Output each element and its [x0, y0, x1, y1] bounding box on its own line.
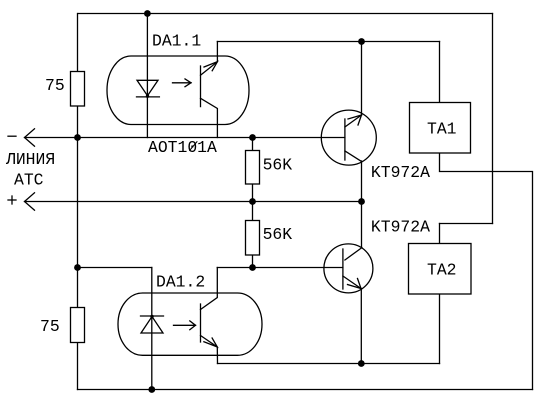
node collector bus junction: [358, 38, 365, 45]
transformer TA1 box: [410, 103, 471, 154]
LED DA1.1 apex dot: [146, 95, 149, 98]
wire plus line y202: [25, 201, 362, 203]
label AOT101A zero slash: [189, 141, 197, 151]
wire Q2 emitter vertical: [360, 289, 362, 364]
wire right outer vertical: [492, 14, 494, 224]
node top LED junction: [144, 10, 151, 17]
svg-text:TA2: TA2: [427, 261, 457, 280]
svg-text:AOT101A: AOT101A: [148, 138, 217, 157]
svg-text:KT972A: KT972A: [371, 217, 430, 236]
wire DA1.2 collector to Q2 base: [217, 267, 343, 269]
phototransistor DA1.2: [201, 268, 218, 364]
svg-text:ЛИНИЯ: ЛИНИЯ: [5, 150, 55, 169]
node emitter bus junction: [358, 360, 365, 367]
optocoupler DA1.2 body: [118, 293, 262, 355]
wire 56K chain vertical: [252, 138, 254, 268]
wire DA1.2 LED vertical: [151, 268, 153, 390]
resistor R3 56K: [246, 221, 260, 256]
transistor Q2 KT972A: [324, 244, 373, 293]
node minus rail junction: [74, 134, 81, 141]
wire DA1.2 anode branch: [78, 267, 152, 269]
label plus sign: [8, 196, 16, 204]
node DA1.2 anode rail junction: [74, 264, 81, 271]
arrow DA1.1 light: [173, 79, 192, 87]
node bottom LED junction: [148, 386, 155, 393]
svg-text:75: 75: [45, 76, 65, 95]
wire Q1 emitter to Q2 collector: [361, 161, 363, 248]
svg-text:TA1: TA1: [427, 120, 457, 139]
optocoupler DA1.1 body: [107, 56, 249, 125]
svg-text:DA1.1: DA1.1: [152, 32, 201, 51]
wire bottom rail: [78, 389, 533, 391]
arrow DA1.2 light: [174, 321, 196, 330]
arrow minus line head: [25, 129, 35, 146]
wire TA1 top lead: [439, 42, 441, 103]
svg-text:KT972A: KT972A: [371, 163, 430, 182]
wire collector bus y42: [217, 41, 439, 43]
node plus emitter junction: [358, 198, 365, 205]
wire left rail: [77, 14, 79, 390]
wire TA2 bottom lead: [439, 294, 441, 364]
transistor Q1 KT972A: [321, 110, 376, 165]
transformer TA2 box: [409, 244, 472, 295]
wire emitter bus y364: [218, 363, 440, 365]
LED DA1.2 triangle: [141, 316, 164, 333]
svg-text:DA1.2: DA1.2: [156, 273, 205, 292]
label minus sign: [8, 135, 16, 137]
wire top rail: [78, 13, 493, 15]
wire TA2 feed horizontal: [440, 223, 493, 225]
wire minus line y137: [25, 137, 345, 139]
wire DA1.1 LED vertical: [146, 14, 148, 138]
wire Q1 collector vertical: [361, 42, 363, 116]
arrow plus line head: [25, 193, 35, 210]
resistor R1 75: [71, 72, 85, 107]
LED DA1.1 triangle: [137, 80, 160, 97]
node Q2 base junction: [249, 264, 256, 271]
svg-text:56K: 56K: [263, 155, 293, 174]
svg-text:АТС: АТС: [14, 170, 44, 189]
resistor R2 56K: [246, 151, 260, 185]
svg-text:56K: 56K: [263, 225, 293, 244]
wire TA1 bottom lead: [440, 153, 533, 390]
LED DA1.2 apex dot: [150, 315, 153, 318]
node plus R junction: [249, 198, 256, 205]
phototransistor DA1.1: [201, 42, 218, 138]
svg-text:75: 75: [40, 317, 60, 336]
node base R2 junction: [249, 134, 256, 141]
wire TA2 top lead: [439, 224, 441, 244]
resistor R4 75: [71, 308, 85, 343]
